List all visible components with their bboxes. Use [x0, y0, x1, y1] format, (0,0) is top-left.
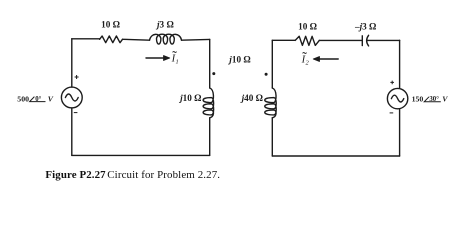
- svg-text:500: 500: [17, 94, 29, 103]
- svg-text:30°: 30°: [429, 96, 439, 103]
- svg-text:V: V: [442, 95, 448, 104]
- svg-text:10 Ω: 10 Ω: [101, 20, 120, 30]
- svg-text:j40 Ω: j40 Ω: [240, 93, 263, 103]
- svg-text:150: 150: [412, 95, 424, 104]
- svg-text:j10 Ω: j10 Ω: [227, 54, 250, 64]
- svg-text:10 Ω: 10 Ω: [298, 21, 317, 31]
- svg-text:1: 1: [176, 59, 179, 66]
- svg-text:Figure P2.27Circuit for Proble: Figure P2.27Circuit for Problem 2.27.: [45, 169, 220, 181]
- svg-text:j3 Ω: j3 Ω: [155, 20, 174, 30]
- svg-text:V: V: [48, 94, 54, 103]
- svg-text:0°: 0°: [35, 96, 41, 103]
- svg-text:j10 Ω: j10 Ω: [178, 93, 201, 103]
- svg-text:–j3 Ω: –j3 Ω: [354, 21, 376, 31]
